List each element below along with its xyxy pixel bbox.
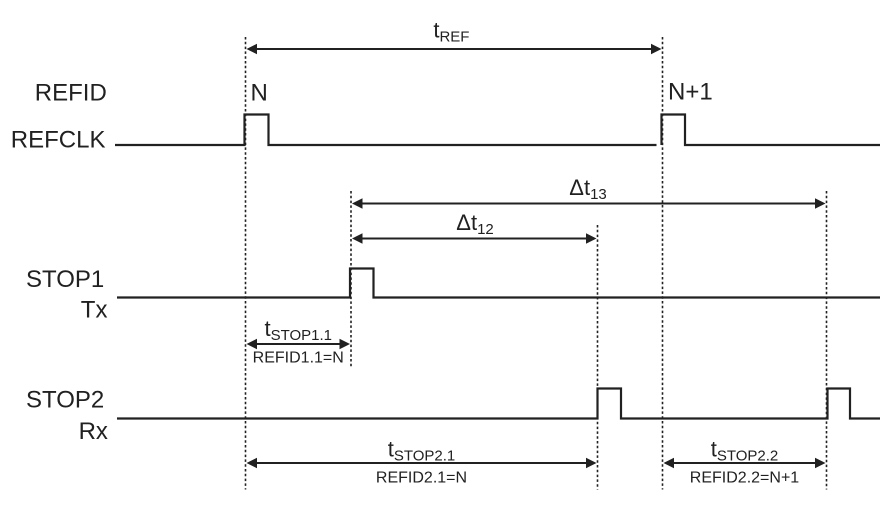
- svg-text:REFID2.1=N: REFID2.1=N: [376, 469, 467, 486]
- svg-text:Rx: Rx: [79, 418, 108, 445]
- svg-text:Tx: Tx: [81, 297, 108, 324]
- svg-text:N+1: N+1: [668, 79, 713, 106]
- svg-text:N: N: [251, 79, 268, 106]
- svg-text:STOP2: STOP2: [26, 387, 104, 414]
- svg-text:REFID1.1=N: REFID1.1=N: [253, 350, 344, 367]
- svg-text:STOP1: STOP1: [26, 266, 104, 293]
- svg-text:REFID2.2=N+1: REFID2.2=N+1: [690, 470, 799, 487]
- svg-text:REFID: REFID: [35, 80, 107, 107]
- svg-text:REFCLK: REFCLK: [11, 126, 106, 153]
